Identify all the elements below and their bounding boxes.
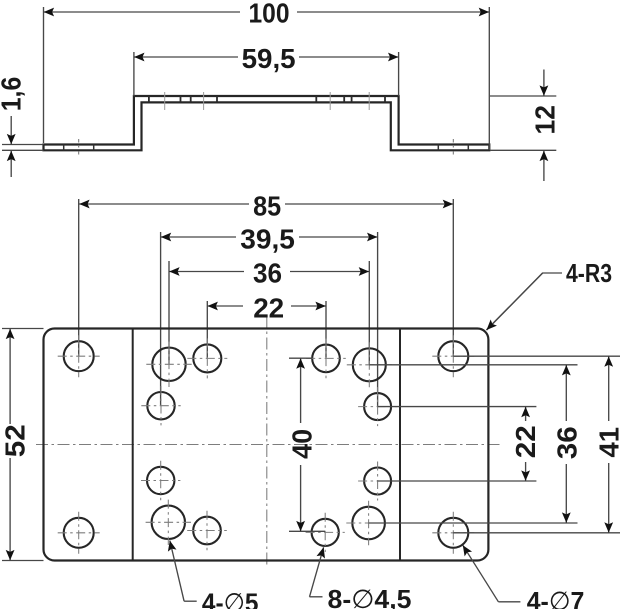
dimension 40: [289, 358, 325, 531]
hole O5 bottom-left: [146, 500, 191, 545]
hole O45 bottom-row-left: [187, 511, 227, 551]
dimension 41: [453, 356, 620, 533]
bend line left: [132, 329, 134, 561]
dimension 22 right: [378, 407, 537, 481]
hole centre ticks in section: [79, 139, 454, 158]
leader 8-O4,5: [310, 547, 324, 597]
hole O45 top-row-left: [187, 338, 227, 378]
svg-text:100: 100: [249, 0, 290, 28]
svg-text:22: 22: [510, 425, 541, 458]
dimension 1,6: [2, 116, 44, 177]
hole O7 top-left: [58, 335, 100, 377]
leader 4-O5: [170, 541, 197, 602]
hole O7 top-right: [432, 335, 474, 377]
hole O45 mid-left-lower: [141, 461, 180, 500]
top view profile outline: [44, 96, 490, 150]
dimension 59,5: [134, 52, 399, 96]
dimension 22 top: [207, 301, 326, 358]
hole O45 bottom-row-right: [306, 513, 345, 552]
hole O7 bottom-left: [58, 512, 100, 554]
svg-text:59,5: 59,5: [242, 43, 296, 74]
svg-text:8-∅4,5: 8-∅4,5: [328, 584, 412, 609]
svg-text:40: 40: [286, 429, 317, 459]
dimension 52: [2, 329, 44, 561]
dimension 100: [44, 7, 490, 150]
svg-text:39,5: 39,5: [240, 224, 295, 255]
hole O5 bottom-right: [346, 501, 391, 546]
svg-text:4-∅5: 4-∅5: [202, 588, 259, 609]
dimension 36: [169, 261, 369, 365]
svg-text:4-∅7: 4-∅7: [527, 586, 585, 609]
svg-text:22: 22: [253, 293, 284, 324]
svg-text:52: 52: [0, 424, 30, 457]
hole O45 top-row-right: [306, 339, 346, 379]
svg-text:36: 36: [253, 258, 282, 289]
leader 4-R3: [487, 273, 563, 330]
bend line right: [399, 329, 401, 561]
plate horizontal centreline: [36, 444, 501, 446]
svg-text:36: 36: [552, 426, 583, 459]
plate outline: [44, 329, 489, 561]
hole O7 bottom-right: [432, 512, 474, 554]
plate vertical centreline: [266, 316, 268, 566]
dimension 36 right: [369, 365, 578, 523]
dimension 39,5: [161, 232, 378, 407]
hole O45 mid-right-upper: [358, 387, 397, 426]
svg-text:4-R3: 4-R3: [566, 258, 612, 288]
leader 4-O7: [463, 545, 521, 602]
hole O45 mid-left-upper: [141, 386, 180, 425]
svg-text:1,6: 1,6: [0, 77, 27, 112]
hole O5 top-left: [146, 342, 191, 387]
dimension 12: [490, 70, 556, 182]
svg-text:12: 12: [530, 105, 561, 135]
hole O45 mid-right-lower: [358, 462, 397, 501]
hole O5 top-right: [347, 342, 392, 387]
hole edge ticks in section (right flange): [438, 145, 468, 151]
svg-text:85: 85: [253, 191, 281, 222]
hole edge ticks in section (raised top): [149, 96, 385, 102]
svg-text:41: 41: [594, 427, 620, 458]
hole edge ticks in section (left flange): [64, 145, 94, 151]
dimension 85: [79, 199, 454, 356]
